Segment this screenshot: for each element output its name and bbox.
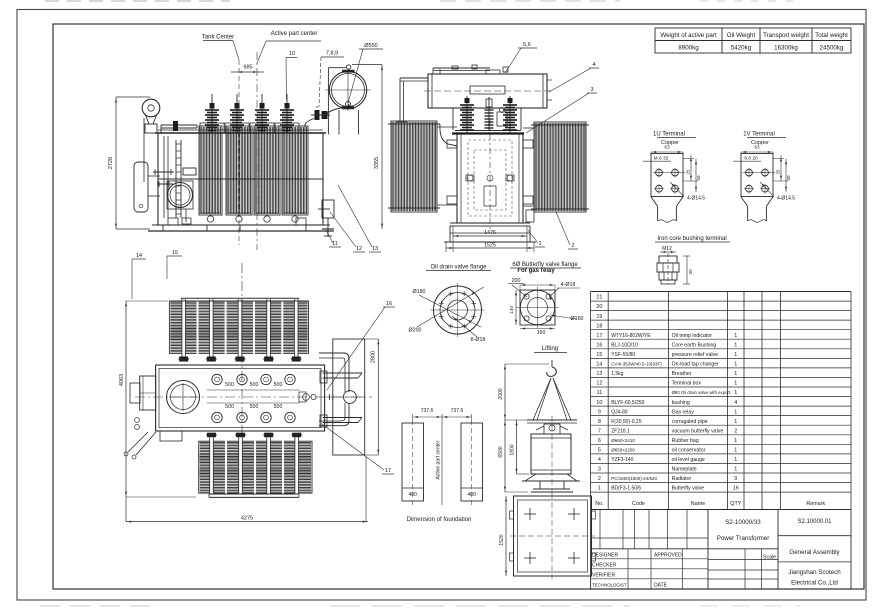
front base xyxy=(450,222,530,224)
svg-text:21: 21 xyxy=(596,295,602,301)
svg-text:Radiator: Radiator xyxy=(672,476,692,482)
svg-text:5: 5 xyxy=(598,448,601,454)
svg-text:Lifting: Lifting xyxy=(542,345,559,352)
svg-text:1525: 1525 xyxy=(484,243,496,249)
svg-text:Gas relay: Gas relay xyxy=(672,409,695,415)
svg-text:1: 1 xyxy=(734,342,737,348)
svg-text:bushing: bushing xyxy=(672,400,690,406)
svg-text:15: 15 xyxy=(172,250,178,256)
svg-text:16: 16 xyxy=(386,301,392,307)
svg-text:M.6 32: M.6 32 xyxy=(654,156,669,162)
svg-text:4-Ø14.5: 4-Ø14.5 xyxy=(777,196,795,202)
crane hook xyxy=(551,360,553,367)
svg-text:16300kg: 16300kg xyxy=(774,45,798,52)
conservator support pipe xyxy=(400,77,428,79)
butterfly valve flange detail xyxy=(508,262,584,336)
svg-text:1: 1 xyxy=(734,381,737,387)
svg-text:TECHNOLOGIST: TECHNOLOGIST xyxy=(592,583,627,588)
scan edge top xyxy=(45,0,800,2)
svg-text:400: 400 xyxy=(468,492,477,498)
left attachment xyxy=(140,376,156,410)
svg-text:160: 160 xyxy=(537,330,546,336)
plan view dims xyxy=(119,301,395,523)
svg-text:Rubber bag: Rubber bag xyxy=(672,438,699,444)
svg-text:8-Ø18: 8-Ø18 xyxy=(471,337,486,343)
right radiator bank xyxy=(534,122,586,212)
svg-text:pressure relief valve: pressure relief valve xyxy=(672,352,719,358)
svg-text:QJ4-80: QJ4-80 xyxy=(611,409,628,415)
svg-text:Active part center: Active part center xyxy=(271,31,318,37)
svg-text:3: 3 xyxy=(598,467,601,473)
tap changer xyxy=(167,381,200,414)
svg-text:Jiangshan Scotech: Jiangshan Scotech xyxy=(788,569,841,576)
svg-text:1800: 1800 xyxy=(510,444,516,455)
svg-text:Ø180: Ø180 xyxy=(413,289,426,295)
lifting foundation plan xyxy=(499,493,596,579)
svg-text:14: 14 xyxy=(596,362,602,368)
corrugated pipe xyxy=(439,69,441,74)
conservator pipes xyxy=(327,108,341,114)
svg-text:9: 9 xyxy=(598,409,601,415)
svg-text:Ø80 Oil drain valve with expor: Ø80 Oil drain valve with export xyxy=(672,390,731,395)
radiator banks xyxy=(199,126,222,215)
HV bushings xyxy=(200,123,224,133)
svg-text:7: 7 xyxy=(598,428,601,434)
manhole xyxy=(168,183,193,208)
svg-text:Weight of active part: Weight of active part xyxy=(660,32,717,39)
svg-text:YSF-55/80: YSF-55/80 xyxy=(611,352,635,358)
side rails and valve xyxy=(333,339,365,455)
transformer body xyxy=(531,434,571,474)
ladder xyxy=(175,140,177,218)
svg-text:1: 1 xyxy=(734,371,737,377)
HV bushings front xyxy=(466,96,468,133)
svg-text:Ø160: Ø160 xyxy=(571,316,584,322)
svg-text:2000: 2000 xyxy=(498,388,504,399)
bolt marks xyxy=(524,513,536,515)
svg-text:1: 1 xyxy=(734,467,737,473)
svg-text:2800: 2800 xyxy=(371,351,377,363)
svg-text:13: 13 xyxy=(372,246,378,252)
oil conservator xyxy=(329,71,366,108)
svg-text:8: 8 xyxy=(598,419,601,425)
svg-text:25: 25 xyxy=(686,169,691,175)
svg-text:18: 18 xyxy=(596,323,602,329)
svg-text:17: 17 xyxy=(385,468,391,474)
svg-text:7,8,9: 7,8,9 xyxy=(326,51,338,57)
svg-text:Code: Code xyxy=(632,501,645,507)
svg-text:1: 1 xyxy=(734,438,737,444)
svg-text:1: 1 xyxy=(734,390,737,396)
svg-text:DATE: DATE xyxy=(654,583,668,589)
scan edge bottom xyxy=(40,605,800,607)
svg-text:VERIFIER: VERIFIER xyxy=(592,573,615,579)
svg-text:11: 11 xyxy=(597,390,603,396)
svg-text:10: 10 xyxy=(596,400,602,406)
svg-text:50: 50 xyxy=(696,175,701,181)
front view transformer xyxy=(388,65,589,242)
svg-text:Tank Center: Tank Center xyxy=(202,35,234,41)
svg-text:6: 6 xyxy=(598,438,601,444)
svg-text:CHECKER: CHECKER xyxy=(592,563,617,569)
svg-text:500: 500 xyxy=(250,382,259,388)
svg-text:Scale: Scale xyxy=(763,555,776,561)
svg-text:5420kg: 5420kg xyxy=(731,45,752,52)
drain valve xyxy=(318,208,330,210)
svg-text:16: 16 xyxy=(596,342,602,348)
sling ropes xyxy=(533,378,551,420)
svg-text:25: 25 xyxy=(776,169,781,175)
svg-text:4275: 4275 xyxy=(241,516,253,522)
tank plan outline xyxy=(156,365,325,431)
svg-text:BD(F3-1.50/5: BD(F3-1.50/5 xyxy=(611,486,641,492)
svg-text:S2.10000.01: S2.10000.01 xyxy=(797,519,832,525)
svg-text:10: 10 xyxy=(289,51,295,57)
piping above tank xyxy=(161,124,197,126)
svg-text:1: 1 xyxy=(734,419,737,425)
title block xyxy=(591,510,851,590)
svg-text:1U Terminal: 1U Terminal xyxy=(653,132,685,138)
svg-text:500: 500 xyxy=(274,382,283,388)
svg-text:YZF3-140: YZF3-140 xyxy=(611,457,633,463)
svg-text:1: 1 xyxy=(734,409,737,415)
svg-text:500: 500 xyxy=(274,404,283,410)
svg-text:400: 400 xyxy=(409,492,418,498)
parts list table xyxy=(591,292,851,510)
fittings xyxy=(303,394,310,401)
svg-text:General Assembly: General Assembly xyxy=(789,549,840,556)
front view dims xyxy=(446,42,599,252)
svg-text:30: 30 xyxy=(688,269,694,275)
svg-text:On-load tap changer: On-load tap changer xyxy=(672,362,720,368)
svg-text:BLJ-10Ω/10: BLJ-10Ω/10 xyxy=(611,342,638,348)
svg-text:PC/1600(1800)-24/520: PC/1600(1800)-24/520 xyxy=(611,476,657,481)
svg-text:985: 985 xyxy=(243,65,252,71)
oil drain valve flange detail xyxy=(409,265,491,344)
conservator bracket xyxy=(327,68,329,135)
svg-text:For gas relay: For gas relay xyxy=(517,268,555,274)
svg-text:CVIII-352W/40.5-10(93F): CVIII-352W/40.5-10(93F) xyxy=(611,362,662,367)
svg-text:63: 63 xyxy=(754,145,760,151)
svg-text:1: 1 xyxy=(734,448,737,454)
svg-text:500: 500 xyxy=(250,404,259,410)
svg-text:2728: 2728 xyxy=(108,157,114,169)
svg-text:17: 17 xyxy=(596,333,602,339)
svg-text:1: 1 xyxy=(538,241,541,247)
foundation dimension detail xyxy=(402,408,483,523)
svg-text:Breather: Breather xyxy=(672,371,692,377)
oil level gauge xyxy=(547,79,552,81)
svg-text:5,6: 5,6 xyxy=(523,42,531,48)
svg-text:12: 12 xyxy=(356,246,362,252)
svg-text:Oil Weight: Oil Weight xyxy=(727,32,756,39)
svg-text:2: 2 xyxy=(734,428,737,434)
oil conservator front xyxy=(428,74,547,108)
svg-text:6500: 6500 xyxy=(498,446,504,457)
gas relay valves xyxy=(315,110,320,120)
svg-text:Power Transformer: Power Transformer xyxy=(717,535,770,542)
side tabs xyxy=(510,511,514,519)
tank body xyxy=(158,133,323,225)
svg-text:M12: M12 xyxy=(662,246,672,252)
svg-text:1: 1 xyxy=(734,362,737,368)
svg-text:4-Ø14.5: 4-Ø14.5 xyxy=(687,196,705,202)
svg-text:corrugated pipe: corrugated pipe xyxy=(672,419,708,425)
svg-text:Transport weight: Transport weight xyxy=(763,32,809,39)
HV terminal detail xyxy=(643,132,705,223)
svg-text:Oil temp indicator: Oil temp indicator xyxy=(672,333,713,339)
svg-text:Ø650×2200: Ø650×2200 xyxy=(611,448,635,453)
svg-text:11: 11 xyxy=(332,241,338,247)
svg-text:20: 20 xyxy=(596,304,602,310)
weight table xyxy=(655,28,851,53)
svg-text:63: 63 xyxy=(664,145,670,151)
svg-text:oil level gauge: oil level gauge xyxy=(672,457,705,463)
svg-text:737.6: 737.6 xyxy=(451,408,464,414)
svg-text:737.6: 737.6 xyxy=(421,408,434,414)
lifting diagram xyxy=(498,345,580,496)
svg-text:Butterfly valve: Butterfly valve xyxy=(672,486,705,492)
wall channel xyxy=(163,136,165,218)
svg-text:Ø660×2410: Ø660×2410 xyxy=(611,438,635,443)
svg-text:Ø200: Ø200 xyxy=(409,328,422,334)
svg-text:1V Terminal: 1V Terminal xyxy=(743,132,775,138)
tank lugs xyxy=(447,140,457,148)
svg-text:2: 2 xyxy=(571,243,574,249)
tank base xyxy=(152,224,330,226)
bottom radiator banks xyxy=(199,441,312,493)
svg-text:6.6 20: 6.6 20 xyxy=(744,156,758,162)
svg-text:4: 4 xyxy=(598,457,601,463)
svg-text:APPROVED: APPROVED xyxy=(654,553,682,559)
braces xyxy=(128,432,148,452)
svg-text:1: 1 xyxy=(734,457,737,463)
svg-text:140: 140 xyxy=(509,306,515,314)
side view dims xyxy=(108,31,383,299)
svg-text:Core earth Bushing: Core earth Bushing xyxy=(672,342,717,348)
LV terminal detail xyxy=(733,132,795,223)
svg-text:Iron core bushing terminal: Iron core bushing terminal xyxy=(657,236,726,242)
svg-text:Total weight: Total weight xyxy=(815,32,848,39)
svg-text:F(30,50)-0.25: F(30,50)-0.25 xyxy=(611,419,642,425)
tank front xyxy=(457,133,523,223)
top radiator banks xyxy=(169,301,308,353)
hex bolt stack xyxy=(667,253,669,284)
svg-text:3355: 3355 xyxy=(374,157,380,169)
svg-text:9: 9 xyxy=(734,476,737,482)
svg-text:ZF218.1: ZF218.1 xyxy=(611,428,630,434)
dim 1520 xyxy=(505,496,507,576)
lifting dims xyxy=(520,284,555,286)
svg-text:19: 19 xyxy=(596,314,602,320)
svg-text:8900kg: 8900kg xyxy=(678,45,699,52)
svg-text:4: 4 xyxy=(734,400,737,406)
svg-text:3: 3 xyxy=(590,87,593,93)
lifting beam xyxy=(527,419,577,421)
svg-text:vacuum butterfly valve: vacuum butterfly valve xyxy=(672,428,724,434)
svg-text:500: 500 xyxy=(225,404,234,410)
svg-text:1: 1 xyxy=(734,352,737,358)
svg-text:QTY: QTY xyxy=(730,501,741,507)
svg-text:1: 1 xyxy=(598,486,601,492)
svg-text:BLYF-60.5/250: BLYF-60.5/250 xyxy=(611,400,644,406)
svg-text:2: 2 xyxy=(598,476,601,482)
svg-text:Name: Name xyxy=(691,501,705,507)
svg-text:1: 1 xyxy=(734,333,737,339)
side view transformer xyxy=(134,65,371,236)
svg-text:15: 15 xyxy=(596,352,602,358)
svg-text:S2-10000/33: S2-10000/33 xyxy=(725,519,761,526)
svg-text:500: 500 xyxy=(225,382,234,388)
svg-text:Nameplate: Nameplate xyxy=(672,467,697,473)
svg-text:Electrical Co.,Ltd: Electrical Co.,Ltd xyxy=(791,580,838,587)
left radiator bank xyxy=(391,121,437,212)
svg-text:4063: 4063 xyxy=(119,374,125,386)
plan view transformer xyxy=(124,263,372,497)
svg-text:DESIGNER: DESIGNER xyxy=(592,553,619,559)
svg-text:13: 13 xyxy=(596,371,602,377)
tap changer knob xyxy=(544,424,560,434)
base skirt xyxy=(525,474,577,481)
svg-text:1.5kg: 1.5kg xyxy=(611,371,623,377)
svg-text:1520: 1520 xyxy=(499,534,505,545)
plan centerlines xyxy=(135,396,372,398)
svg-text:1475: 1475 xyxy=(484,230,496,236)
svg-text:No.: No. xyxy=(595,501,603,507)
LV bushing xyxy=(488,97,490,131)
svg-text:4-Ø18: 4-Ø18 xyxy=(561,282,576,288)
svg-text:16: 16 xyxy=(733,486,739,492)
bushing circles xyxy=(212,374,222,384)
svg-text:24500kg: 24500kg xyxy=(820,45,844,52)
svg-text:200: 200 xyxy=(512,278,521,284)
svg-text:Dimension of foundation: Dimension of foundation xyxy=(407,517,472,523)
iron core bushing terminal detail xyxy=(655,236,730,284)
svg-text:12: 12 xyxy=(596,381,602,387)
svg-text:Remark: Remark xyxy=(806,501,825,507)
svg-text:Terminal box: Terminal box xyxy=(672,381,702,387)
svg-text:14: 14 xyxy=(136,253,142,259)
core outline xyxy=(468,140,512,216)
svg-text:50: 50 xyxy=(786,175,791,181)
svg-text:Ø550: Ø550 xyxy=(364,43,377,49)
svg-text:WTY16-802W/YE: WTY16-802W/YE xyxy=(611,333,651,339)
svg-text:4: 4 xyxy=(592,62,595,68)
svg-text:oil conservator: oil conservator xyxy=(672,448,706,454)
svg-text:Active part center: Active part center xyxy=(436,440,442,479)
svg-text:Oil drain valve flange: Oil drain valve flange xyxy=(430,265,487,271)
